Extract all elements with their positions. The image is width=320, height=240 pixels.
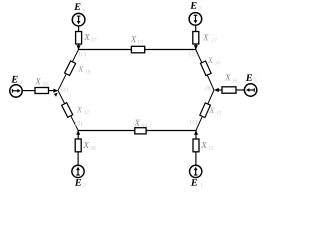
- source E3 bottom-left: [72, 165, 84, 177]
- node c label: [79, 51, 86, 57]
- wire E4 to X33: [22, 90, 35, 92]
- arrowhead into node a: [53, 89, 58, 93]
- label X16: [208, 57, 214, 63]
- label X17: [203, 34, 209, 40]
- label E2: [190, 2, 196, 9]
- resistor X12: [193, 139, 199, 152]
- wire node 1 to X12: [195, 131, 197, 140]
- label X18: [78, 66, 84, 72]
- resistor X18 diagonal a-c: [65, 61, 76, 76]
- label X63: [130, 36, 136, 42]
- label E6: [74, 3, 80, 10]
- wire X33 to node a: [49, 90, 58, 92]
- source E5 right: [244, 84, 256, 96]
- source E1 bottom-right: [190, 165, 202, 177]
- arrowhead into node 1: [194, 130, 198, 135]
- label X12: [201, 142, 207, 148]
- wire diagonal a-3: [58, 91, 78, 131]
- source E2 top-right: [189, 13, 202, 26]
- label X12d: [77, 107, 83, 113]
- node 1 label: [190, 120, 197, 126]
- current arrow near node a: [54, 93, 58, 97]
- arrowhead into node b: [214, 88, 219, 92]
- label E3: [75, 179, 81, 186]
- arrowhead into node 2: [194, 45, 198, 50]
- wire top bus c-2: [79, 49, 196, 51]
- wire b to X36: [218, 89, 223, 91]
- resistor X12d diagonal a-3: [62, 103, 73, 118]
- wire node 3 to X28: [77, 131, 79, 140]
- resistor X64 bottom middle: [135, 128, 146, 134]
- label X33: [35, 78, 41, 84]
- wire bottom bus 3-1: [78, 130, 196, 132]
- label X15: [209, 107, 215, 113]
- resistor X16 diagonal 2-b: [200, 61, 211, 76]
- label E5: [246, 74, 252, 81]
- resistor X36: [222, 87, 236, 93]
- node 2 label: [189, 51, 196, 57]
- resistor X28: [75, 139, 81, 152]
- node a label: [61, 86, 68, 92]
- wire E6 to X37: [78, 26, 80, 31]
- node 3 label: [75, 121, 82, 127]
- source E4 left: [10, 85, 22, 97]
- arrowhead into node 3: [76, 130, 80, 135]
- wire X28 to E3: [77, 152, 79, 165]
- wire diagonal 2-b: [196, 50, 214, 91]
- resistor X37: [76, 32, 82, 45]
- wire X17 to node 2: [195, 44, 197, 50]
- resistor X17: [193, 32, 199, 45]
- source E6 top-left: [72, 13, 85, 26]
- wire diagonal b-1: [196, 90, 214, 131]
- label X36: [225, 74, 231, 80]
- resistor X63 top middle: [131, 46, 144, 53]
- label X64: [134, 120, 140, 126]
- wire X36 to E5: [236, 89, 244, 91]
- resistor X33: [35, 88, 49, 94]
- node b label: [206, 86, 213, 92]
- label X28: [83, 142, 89, 148]
- wire X12 to E1: [195, 152, 197, 165]
- arrowhead into node c: [77, 45, 81, 50]
- resistor X15 diagonal b-1: [200, 103, 211, 118]
- label X37: [84, 34, 90, 40]
- wire E2 to X17: [195, 25, 197, 32]
- wire X37 to node c: [78, 44, 80, 50]
- label E1: [191, 179, 197, 186]
- label E4: [11, 76, 17, 83]
- wire diagonal a-c: [58, 50, 79, 91]
